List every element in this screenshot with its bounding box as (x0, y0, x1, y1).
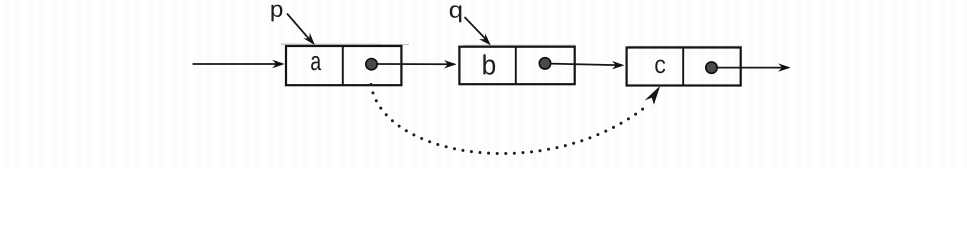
scan fringe above node b (463, 44, 576, 46)
label p (271, 5, 282, 22)
node b box (459, 47, 574, 84)
node c box (627, 48, 741, 86)
arrowhead c outgoing (778, 63, 791, 71)
wire c outgoing (717, 67, 788, 69)
node b divider (515, 47, 517, 84)
pointer dot of node a (366, 58, 377, 69)
label b (483, 54, 495, 74)
pointer dot of node c (706, 62, 717, 73)
wire b to c (551, 64, 623, 66)
scan fringe above node c (628, 45, 742, 47)
label a (311, 56, 321, 70)
label c (655, 60, 665, 74)
arrowhead b to c (612, 61, 625, 69)
wire: incoming list pointer (193, 63, 283, 65)
wire q to node b (465, 17, 488, 41)
arrowhead a to b (444, 60, 457, 68)
label q (450, 5, 462, 22)
dotted relink curve from node a pointer to node c (371, 85, 646, 154)
arrowhead of dotted curve (645, 83, 665, 106)
node a box (286, 46, 401, 85)
arrowhead p to node a (303, 33, 318, 48)
wire a to b (377, 63, 455, 65)
arrowhead q to node b (479, 33, 494, 48)
arrowhead of incoming wire (272, 60, 285, 68)
wire p to node a (287, 14, 311, 42)
node c divider (682, 48, 684, 86)
node a divider (342, 46, 344, 85)
pointer dot of node b (539, 58, 550, 69)
scan fringe above node a (281, 43, 409, 45)
